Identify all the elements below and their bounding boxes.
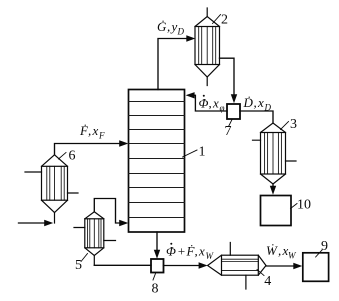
svg-text:x: x bbox=[92, 123, 99, 138]
divider box 7 bbox=[227, 104, 240, 119]
column 1 (tray distillation column shell) bbox=[129, 90, 185, 233]
label 4 pointer tick bbox=[257, 270, 264, 276]
svg-text:8: 8 bbox=[152, 282, 159, 297]
label Phi,x_phi (reflux stream) bbox=[199, 95, 225, 113]
svg-text:,: , bbox=[167, 19, 170, 34]
mixer box 8 bbox=[151, 259, 164, 273]
svg-text:x: x bbox=[257, 95, 264, 110]
wire: heated feed from preheater 6 to column (F, x_F) bbox=[55, 144, 122, 155]
svg-text:+: + bbox=[177, 244, 186, 259]
tank 10 bbox=[261, 196, 292, 226]
label 8 pointer tick bbox=[153, 274, 156, 281]
wire: mixer 8 to bottoms cooler 4 (Phi+F, x_w) bbox=[164, 265, 202, 267]
arrowhead vapor into column bbox=[119, 220, 128, 226]
wire: cooler 3 down to tank 10 bbox=[272, 184, 274, 188]
arrowhead into tank 9 bbox=[293, 263, 302, 269]
svg-text:F: F bbox=[98, 131, 105, 141]
heat exchanger 2 (condenser) bbox=[195, 8, 220, 86]
wire: condenser 2 outlet down to divider 7 bbox=[220, 58, 235, 96]
heat exchanger 5 (reboiler) bbox=[74, 212, 116, 265]
svg-text:y: y bbox=[170, 19, 178, 34]
label 3 pointer tick bbox=[281, 122, 289, 130]
svg-text:φ: φ bbox=[220, 103, 225, 113]
label 2 pointer tick bbox=[213, 15, 221, 24]
svg-text:Φ: Φ bbox=[166, 244, 176, 259]
wire: raw feed inlet into preheater 6 bottom bbox=[19, 222, 48, 224]
wire: vapor line column top to condenser 2 bbox=[158, 39, 189, 90]
svg-text:9: 9 bbox=[321, 239, 328, 254]
label Phi+F,xw (bottoms mixed stream) bbox=[166, 243, 215, 261]
wire: vapor from reboiler 5 to column bottom bbox=[94, 199, 121, 224]
label W,xw (bottoms product stream) bbox=[266, 243, 297, 261]
heat exchanger 3 (distillate cooler) bbox=[253, 123, 297, 184]
arrowhead into mixer 8 bbox=[154, 250, 160, 259]
svg-text:1: 1 bbox=[199, 145, 206, 160]
arrowhead feed into column bbox=[119, 140, 128, 146]
svg-text:D: D bbox=[177, 27, 185, 37]
svg-text:Ẇ: Ẇ bbox=[266, 243, 278, 258]
svg-text:x: x bbox=[198, 244, 205, 259]
label 10 pointer tick bbox=[291, 204, 298, 209]
arrowhead feed inlet bbox=[44, 220, 53, 226]
svg-text:Ḋ: Ḋ bbox=[243, 95, 254, 110]
label 7 pointer tick bbox=[229, 120, 233, 127]
arrowhead into tank 10 bbox=[270, 186, 276, 195]
svg-text:x: x bbox=[212, 96, 219, 111]
svg-text:6: 6 bbox=[69, 149, 76, 164]
wire: distillate from divider 7 to cooler 3 (D, x_D) bbox=[240, 111, 273, 123]
wire: reflux from divider 7 to column top (Phi, x_phi) bbox=[192, 95, 228, 111]
label G,yD (overhead vapor stream) bbox=[157, 19, 185, 37]
label 6 pointer tick bbox=[59, 153, 67, 160]
arrowhead into cooler 4 bbox=[199, 262, 208, 268]
label 1 pointer tick bbox=[183, 150, 198, 157]
svg-text:5: 5 bbox=[75, 258, 82, 273]
arrowhead reflux into column bbox=[186, 92, 195, 98]
svg-text:2: 2 bbox=[221, 13, 228, 28]
heat exchanger 4 (bottoms cooler, horizontal) bbox=[208, 243, 266, 290]
svg-text:Ġ: Ġ bbox=[157, 19, 167, 34]
wire: column bottoms down to mixer 8 bbox=[156, 232, 158, 253]
label F,xF (feed stream) bbox=[79, 123, 105, 141]
heat exchanger 6 (feed preheater) bbox=[25, 155, 78, 223]
svg-text:,: , bbox=[88, 123, 91, 138]
svg-text:10: 10 bbox=[297, 198, 311, 213]
svg-text:3: 3 bbox=[290, 117, 297, 132]
svg-text:4: 4 bbox=[264, 274, 271, 289]
label 5 pointer tick bbox=[81, 254, 88, 262]
svg-text:,: , bbox=[195, 244, 198, 259]
tank 9 bbox=[303, 253, 329, 281]
svg-text:D: D bbox=[264, 103, 272, 113]
svg-text:,: , bbox=[254, 95, 257, 110]
svg-text:,: , bbox=[209, 96, 212, 111]
wire: liquid from reboiler 5 bottom to mixer 8 bbox=[94, 264, 151, 266]
arrowhead into condenser 2 bbox=[186, 35, 195, 41]
column 1 tray plates bbox=[129, 102, 185, 218]
svg-text:Φ: Φ bbox=[199, 96, 209, 111]
arrowhead into divider 7 bbox=[231, 94, 237, 103]
svg-text:,: , bbox=[278, 243, 281, 258]
label D,xD (distillate stream) bbox=[243, 95, 272, 113]
wire: cooler 4 to tank 9 (W, x_w) bbox=[266, 265, 296, 267]
label 9 pointer tick bbox=[316, 250, 322, 257]
svg-text:7: 7 bbox=[225, 124, 232, 139]
